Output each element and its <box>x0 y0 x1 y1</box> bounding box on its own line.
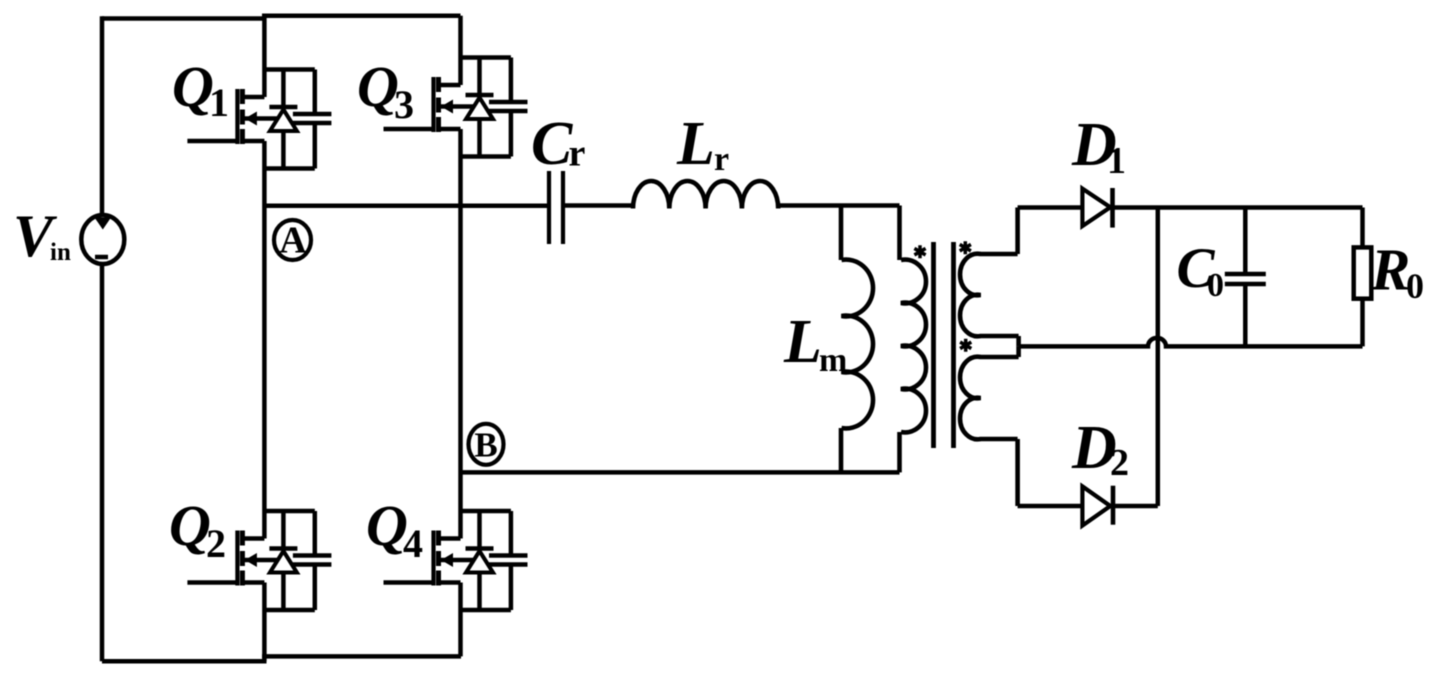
node A circle <box>274 220 311 260</box>
svg-text:r: r <box>569 133 586 175</box>
voltage source Vin <box>81 215 124 264</box>
resistor R0 <box>1354 208 1372 347</box>
wire Q3-B-Q4 leg <box>458 157 463 512</box>
svg-text:m: m <box>819 342 847 379</box>
transformer secondary top winding <box>960 208 1019 347</box>
svg-text:1: 1 <box>1107 140 1126 182</box>
wire center tap with hop <box>1019 338 1363 347</box>
svg-text:A: A <box>279 220 307 262</box>
wire bottom rail left <box>102 659 267 664</box>
svg-text:r: r <box>714 141 729 178</box>
svg-text:in: in <box>50 239 71 266</box>
svg-text:4: 4 <box>403 521 423 566</box>
diode D1 <box>1082 188 1112 228</box>
transistor Q4 <box>384 511 528 610</box>
transistor Q2 <box>187 511 331 610</box>
wire top output rail <box>1018 205 1363 210</box>
wire D2 anode <box>1018 504 1158 509</box>
wire node A rail <box>264 203 547 208</box>
transistor Q3 <box>384 58 528 157</box>
svg-text:Q: Q <box>366 493 408 558</box>
wire left rail upper <box>100 16 105 214</box>
svg-text:Q: Q <box>172 54 214 119</box>
svg-text:L: L <box>676 110 715 178</box>
transistor Q1 <box>187 70 331 169</box>
node B circle <box>469 424 504 465</box>
polarity star secondary mid <box>960 339 971 352</box>
svg-text:2: 2 <box>1110 442 1129 484</box>
wire Cr to Lr <box>565 203 633 208</box>
wire Lr to transformer <box>778 203 900 208</box>
wire Q2 source stub <box>262 610 267 661</box>
svg-text:2: 2 <box>206 521 226 566</box>
svg-text:R: R <box>1370 237 1410 303</box>
svg-text:L: L <box>783 308 822 376</box>
wire D1 D2 cathode leg <box>1156 208 1161 507</box>
transformer core bars <box>934 242 954 448</box>
svg-text:Q: Q <box>357 54 399 119</box>
wire Q1 drain stub <box>262 16 267 70</box>
svg-text:0: 0 <box>1406 266 1424 306</box>
transformer primary winding <box>900 206 926 473</box>
inductor Lm <box>841 206 873 473</box>
wire Q1-A-Q2 leg <box>262 169 267 512</box>
capacitor Co <box>1225 208 1266 347</box>
svg-text:0: 0 <box>1207 267 1224 304</box>
svg-text:B: B <box>474 426 497 465</box>
wire Q4 source stub <box>458 610 463 656</box>
wire Q3 drain stub <box>458 16 463 58</box>
polarity star primary <box>914 245 925 258</box>
wire top rail left <box>102 16 267 21</box>
wire node B rail <box>461 470 900 475</box>
polarity star secondary top <box>960 241 971 254</box>
diode D2 <box>1082 486 1113 526</box>
svg-text:1: 1 <box>209 80 229 125</box>
capacitor Cr <box>549 171 563 244</box>
svg-text:3: 3 <box>394 82 414 127</box>
svg-text:Q: Q <box>169 493 211 558</box>
wire bottom rail right <box>262 654 461 659</box>
transformer secondary bottom winding <box>960 346 1019 506</box>
wire left rail lower <box>100 265 105 661</box>
svg-text:C: C <box>531 110 573 178</box>
inductor Lr <box>633 181 778 209</box>
wire top rail right <box>262 13 461 18</box>
